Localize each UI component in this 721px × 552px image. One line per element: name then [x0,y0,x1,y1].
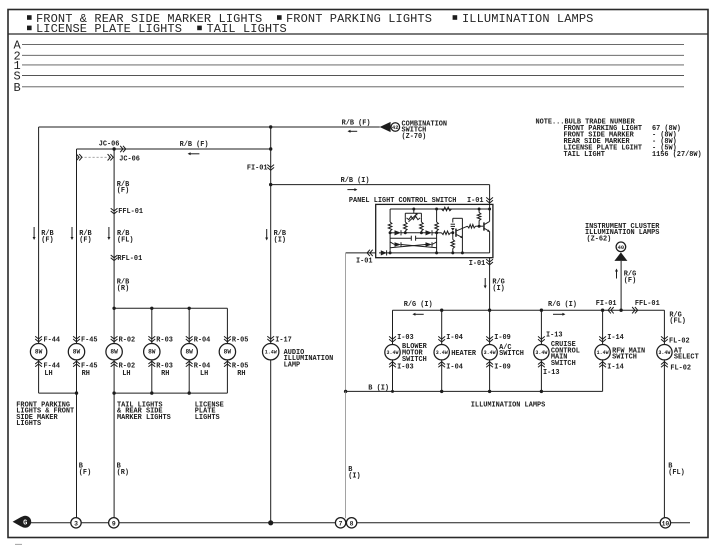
diode D1 at input [381,250,387,255]
wire drop into panel switch [489,185,491,209]
svg-text:R/G (I): R/G (I) [404,301,433,309]
connector JC-06 on wire [120,146,126,152]
direction arrow on F-45 wire [71,227,74,240]
svg-text:R/B (I): R/B (I) [341,177,370,185]
ground connector circle 8 [346,518,356,528]
svg-text:(I): (I) [274,236,286,244]
svg-text:I-01: I-01 [467,197,484,205]
wire R/G (I) below panel switch [490,258,505,345]
junction dot tail bus [112,307,115,310]
svg-text:I-01: I-01 [356,258,373,266]
panel light control switch U1 box [349,197,493,258]
junction dot R-04 bottom [188,391,191,394]
svg-text:(Z-70): (Z-70) [402,133,427,141]
current arrow left on R/G bus [412,313,423,316]
wire R/B (F) vertical to F-45 [77,149,92,344]
direction arrow on R/G (I) wire [484,278,487,289]
connector FL-02 upper [661,336,690,345]
svg-text:R/G (I): R/G (I) [548,301,577,309]
junction dot R-04 top [188,307,191,310]
junction dot at (270.7,149) [269,147,272,150]
wire R-02 to ground circle 9 [114,360,129,518]
lamp I-03 3.4W [385,343,428,364]
svg-text:1.4W: 1.4W [597,350,609,356]
svg-text:I-04: I-04 [446,363,463,371]
connector I-17 [267,336,291,344]
connector R-03 lower [148,361,172,378]
svg-text:PANEL LIGHT CONTROL SWITCH: PANEL LIGHT CONTROL SWITCH [349,197,457,205]
svg-text:ILLUMINATION LAMPS: ILLUMINATION LAMPS [471,402,545,410]
junction dot at node (270.7,127) [269,125,272,128]
junction dot R-03 top [150,307,153,310]
wire R/B (I) horizontal to panel light control switch [271,177,490,185]
connector I-04 upper [438,334,463,342]
internal bottom wire [379,252,490,254]
svg-text:(FL): (FL) [117,236,134,244]
wire drop to I-14 [602,310,604,345]
svg-text:JC-06: JC-06 [99,140,120,148]
connector R-04 upper [186,336,210,344]
junction dot I-14 top [601,309,604,312]
wire F-45 to ground circle 3 [77,360,92,518]
wire R-03 to bus2 [151,360,153,393]
svg-text:I-04: I-04 [446,334,463,342]
svg-text:G: G [23,519,27,527]
connector F-44 lower [35,361,60,378]
svg-text:MARKER LIGHTS: MARKER LIGHTS [117,414,171,422]
bus line A [14,39,685,53]
connector F-44 upper [35,336,60,344]
svg-text:I-13: I-13 [543,369,560,377]
junction dots middle wire [389,231,392,234]
wire to R-04 [188,308,190,343]
wire R/G (FL) label [669,311,686,325]
transistor Q1 [455,226,467,238]
wire B (I) faint return line [345,253,347,392]
junction dot R-03 bottom [150,391,153,394]
lamp R-02 tail LH 8W [106,344,122,360]
caption license plate lights group [195,401,224,421]
bus line S [14,70,685,84]
connector R-02 upper [111,336,135,344]
variable resistor VR1 [405,209,421,222]
wire R/B vertical trunk to tail lights [114,149,133,344]
junction dot I-03 bottom [391,390,394,393]
svg-text:B: B [14,81,21,95]
crossing diode arm 1 [390,242,437,248]
svg-text:I-01: I-01 [469,260,486,268]
svg-text:RFL-01: RFL-01 [117,255,142,263]
caption illumination lamps [471,402,545,410]
direction arrow on F-44 wire [33,227,36,240]
svg-text:F-45: F-45 [81,336,98,344]
junction dot I-13 bottom [540,390,543,393]
junction dot on ground bus [268,520,273,525]
svg-text:9: 9 [112,520,116,527]
svg-text:B (I): B (I) [368,385,389,393]
title header text [27,12,593,36]
wire below I-03 [392,360,394,392]
svg-text:(R): (R) [117,285,129,293]
combination switch arrow, pin 42 [380,120,447,140]
svg-text:R-02: R-02 [119,336,136,344]
svg-text:3.4W: 3.4W [436,350,448,356]
wire R/B (F) horizontal to combination switch [39,120,380,128]
svg-text:10: 10 [662,520,670,527]
connector FFL-01 on bus [632,307,638,313]
svg-text:LAMP: LAMP [284,362,301,370]
internal middle wire with diodes [390,230,441,235]
svg-text:(F): (F) [79,236,91,244]
wire drop to I-13 [540,310,542,345]
resistor R3 [420,218,424,233]
connector RFL-01 [111,255,143,263]
resistor R5 under Q1 [451,240,455,253]
svg-text:8: 8 [350,520,354,527]
svg-text:(F): (F) [41,236,53,244]
wire to R-05 [226,308,228,343]
wire below I-14 [602,360,604,392]
svg-text:LH: LH [122,370,130,378]
resistor R7 to Q1 base [442,231,453,235]
connector I-01 bottom [469,259,493,268]
svg-text:(I): (I) [348,472,360,480]
wire I-17 to ground bus [270,360,272,523]
svg-text:I-09: I-09 [494,334,511,342]
svg-text:(R): (R) [117,469,129,477]
wire R/B (F) second horizontal (JC-06 row) [77,140,271,149]
wire to R-03 [151,308,153,343]
svg-text:I-03: I-03 [397,334,414,342]
wire below I-09 [489,360,491,392]
connector R-05 lower [224,361,248,378]
svg-text:LIGHTS: LIGHTS [16,420,41,428]
junction dot JC-06 [112,147,115,150]
wire below FL-02 [664,360,684,518]
ground connector circle 7 [335,518,345,528]
svg-text:LH: LH [200,370,208,378]
dashed link JC-06 [76,154,139,163]
note bulb trade number table [536,119,702,160]
ground connector circle 10 [660,518,670,528]
connector R-03 upper [148,336,172,344]
wire F-44 to ground bus1 [39,360,77,393]
caption front parking lights group [16,401,74,428]
crossing diode arm 2 [390,242,437,248]
connector I-13 upper [538,331,563,342]
direction arrow up on R/G (F) [615,269,618,279]
connector I-09 lower [486,362,511,372]
ground connector circle 3 [71,518,81,528]
svg-text:(Z-62): (Z-62) [587,236,612,244]
connector R-02 lower [111,361,135,378]
connector I-03 lower [389,362,414,372]
bus line 2 [14,50,685,64]
wire drop to I-04 [441,310,443,345]
junction dot B(I) bus left end [344,390,347,393]
junction dot bus2 left [112,391,115,394]
connector FL-02 lower [661,362,691,373]
ground symbol G [13,516,32,528]
svg-text:JC-06: JC-06 [119,155,140,163]
bus line 1 [14,59,685,73]
svg-text:FL-02: FL-02 [670,364,691,372]
svg-text:SELECT: SELECT [674,354,699,362]
current arrow on R/B (I) wire [347,188,357,191]
svg-text:RH: RH [161,370,169,378]
svg-text:RH: RH [82,370,90,378]
resistor R1 [388,209,392,253]
connector F-45 lower [73,361,97,378]
svg-text:SWITCH: SWITCH [551,360,576,368]
svg-text:7: 7 [339,520,343,527]
direction arrow on tail trunk [107,227,110,240]
connector F-45 upper [73,336,97,344]
svg-text:I-03: I-03 [397,363,414,371]
svg-text:R/B (F): R/B (F) [180,141,209,149]
junction dots on top rail [412,208,415,211]
lamp R-04 8W [181,344,197,360]
svg-text:3.4W: 3.4W [535,350,547,356]
svg-text:R-05: R-05 [232,336,249,344]
svg-text:LICENSE PLATE LIGHTS: LICENSE PLATE LIGHTS [36,22,182,36]
svg-text:3: 3 [74,520,78,527]
ground connector circle 9 [109,518,119,528]
direction arrow on audio trunk [265,229,268,241]
wire R-05 to bus2 [226,360,228,393]
svg-text:3.4W: 3.4W [386,350,398,356]
tail light upper bus [114,307,227,309]
lamp I-14 1.4W [595,345,645,362]
junction dot I-13 top [540,309,543,312]
lamp I-17 audio illumination 1.4W [263,344,334,370]
tail light lower bus2 [114,392,227,394]
resistor R8 [477,209,481,226]
connector I-04 lower [438,362,463,372]
resistor R9 [468,224,480,228]
bus line B [14,81,685,95]
junction dot I-09 top [488,309,491,312]
junction dot at (270.7,184.6) [269,183,272,186]
wire below I-13 [540,360,542,392]
wire below I-04 [441,360,443,392]
wire drop to I-03 [392,310,394,345]
wire R/B (F) vertical to F-44 [39,127,54,344]
junction dot I-09 bottom [488,390,491,393]
wire R/G (F) to instrument cluster [621,261,636,310]
connector I-03 upper [389,334,414,342]
svg-text:F-44: F-44 [44,336,61,344]
svg-text:R-03: R-03 [156,336,173,344]
svg-text:(F): (F) [624,277,636,285]
connector R-05 upper [224,336,248,344]
svg-text:FI-01: FI-01 [247,165,268,173]
lamp I-04 3.4W [434,345,477,360]
svg-text:42: 42 [392,125,398,131]
junction dot Q2 base node [478,225,481,228]
svg-text:I-17: I-17 [275,336,292,344]
wire R-04 to bus2 [188,360,190,393]
current arrow on R/B (F) wire [348,130,358,133]
junction dot Q1 base node [451,231,454,234]
svg-text:8W: 8W [148,349,156,356]
svg-text:I-14: I-14 [607,363,624,371]
connector I-14 lower [599,362,624,372]
transistor Q2 [479,209,490,253]
junction dot instrument cluster feed [619,309,622,312]
wire I-01 bottom-left stub [346,250,376,266]
svg-text:I-13: I-13 [546,331,563,339]
connector I-14 upper [599,334,624,342]
current arrow right on R/G bus [553,313,565,316]
wire R/G illumination bus [393,300,665,310]
svg-text:(FL): (FL) [668,469,685,477]
caption tail lights group [117,401,171,421]
svg-text:ILLUMINATION LAMPS: ILLUMINATION LAMPS [462,12,593,26]
lamp I-09 3.4W [482,344,524,360]
svg-text:1156 (27/8W): 1156 (27/8W) [652,151,702,159]
svg-text:SWITCH: SWITCH [499,350,524,358]
connector FI-01 on trunk [247,165,274,173]
lamp I-13 3.4W [534,341,580,368]
svg-text:FFL-01: FFL-01 [635,300,660,308]
svg-text:8W: 8W [110,349,118,356]
svg-text:R/B (F): R/B (F) [342,120,371,128]
lamp F-44 front parking LH 8W [30,344,46,360]
svg-text:3.4W: 3.4W [484,350,496,356]
svg-text:LIGHTS: LIGHTS [195,414,220,422]
svg-text:FL-02: FL-02 [669,338,690,346]
connector I-09 upper [486,334,511,342]
lamp F-45 front parking RH 8W [68,344,84,360]
resistor on top rail [442,207,452,211]
svg-text:3.4W: 3.4W [658,350,670,356]
wire R/B (I) vertical trunk [271,127,286,344]
svg-text:TAIL LIGHT: TAIL LIGHT [564,151,605,159]
svg-text:(F): (F) [117,187,129,195]
svg-text:TAIL LIGHTS: TAIL LIGHTS [207,22,287,36]
svg-text:8W: 8W [224,349,232,356]
svg-text:8W: 8W [73,349,81,356]
lamp R-05 8W [219,344,235,360]
capacitor row [390,236,437,241]
svg-text:R-04: R-04 [194,336,211,344]
lamp FL-02 3.4W [657,345,699,362]
ground bus wire [31,522,690,524]
current arrow on JC-06 row wire [188,152,200,155]
instrument cluster illumination lamps, pin 40 [585,223,660,261]
junction dots bottom wire [389,251,392,254]
svg-text:FRONT PARKING LIGHTS: FRONT PARKING LIGHTS [286,12,432,26]
wire B (I) lower bus [346,385,603,393]
wire drop to FL-02 [663,310,665,345]
resistor R2 [404,218,408,233]
connector I-13 lower [538,362,560,377]
lamp R-03 8W [144,344,160,360]
svg-text:(F): (F) [79,469,91,477]
stray scan tick [15,543,22,545]
bias network above Q1 [451,218,463,253]
resistor R4 [435,209,439,253]
svg-text:(I): (I) [492,285,504,293]
svg-text:FFL-01: FFL-01 [118,208,143,216]
connector FFL-01 [111,208,143,216]
junction dot I-04 top [440,309,443,312]
svg-text:40: 40 [618,245,624,251]
svg-text:RH: RH [237,370,245,378]
connector I-01 top [467,197,493,205]
svg-text:I-09: I-09 [494,363,511,371]
svg-text:HEATER: HEATER [451,350,477,358]
svg-text:SWITCH: SWITCH [612,354,637,362]
svg-text:(FL): (FL) [669,318,686,326]
svg-text:I-14: I-14 [607,334,624,342]
svg-text:LH: LH [44,370,52,378]
junction dot bus1 [75,391,78,394]
wire drop to I-09 [0,0,1,1]
svg-text:8W: 8W [35,349,43,356]
internal top rail [390,208,490,210]
svg-text:8W: 8W [185,349,193,356]
connector FI-01 on bus [608,307,614,313]
connector R-04 lower [186,361,210,378]
junction dot I-04 bottom [440,390,443,393]
svg-text:1.4W: 1.4W [265,350,277,356]
wire B (I) to ground circles 7 8 [346,391,361,518]
svg-text:FI-01: FI-01 [596,300,617,308]
